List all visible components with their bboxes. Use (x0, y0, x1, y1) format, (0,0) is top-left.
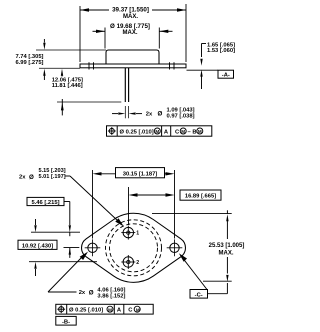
cap dome outline (106, 50, 159, 64)
pin 1 seal circle (123, 227, 133, 237)
svg-text:2x: 2x (19, 175, 26, 181)
feature control frame: position dia 0.25 [.010] M | A | C M (56, 304, 153, 314)
svg-text:MAX.: MAX. (123, 14, 138, 20)
left mounting hole tick 1 (88, 62, 90, 69)
ext line pin 1 center (left) (31, 231, 80, 233)
flange outline (bottom view) (82, 213, 186, 282)
svg-text:M: M (198, 129, 202, 134)
datum -B- flag (56, 316, 76, 325)
dimension 39.37 [1.550] MAX. overall width (80, 9, 109, 11)
svg-text:Ø: Ø (29, 174, 34, 181)
svg-text:M: M (181, 129, 185, 134)
dimension 2x dia 1.09/0.97 pin diameter (124, 106, 126, 118)
pin 1 crosshair vertical (127, 226, 129, 240)
pin 2 crosshair vertical (127, 255, 129, 269)
svg-text:A: A (117, 308, 122, 314)
svg-text:4.06 [.160]: 4.06 [.160] (97, 287, 125, 293)
svg-text:5.46 [.215]: 5.46 [.215] (31, 200, 59, 206)
svg-text:Ø 0.25 [.010]: Ø 0.25 [.010] (120, 129, 154, 135)
datum -A- flag on seating plane (187, 69, 219, 71)
dimension 1.65/1.53 flange thickness (202, 43, 207, 45)
ext line left hole center (92, 170, 94, 239)
right hole crosshair horizontal (167, 247, 183, 249)
can outer rim (hidden) dashed circle (106, 220, 162, 276)
ext line dome left (dia 19.68 dim) (104, 28, 106, 49)
ext line right hole center (174, 170, 176, 239)
right hole crosshair vertical (174, 239, 176, 256)
svg-text:M: M (108, 307, 112, 312)
can body (hidden) dashed circle (110, 224, 158, 272)
dimension dia 19.68 [.775] MAX. cap diameter (93, 30, 106, 32)
left hole crosshair vertical (92, 239, 94, 256)
pin 1 center circle (127, 231, 130, 234)
right mounting hole tick 2 (173, 62, 175, 69)
svg-text:39.37 [1.550]: 39.37 [1.550] (112, 6, 149, 13)
svg-text:2x: 2x (79, 290, 86, 296)
ext line flange top edge (right) (152, 212, 232, 214)
svg-text:30.15 [1.187]: 30.15 [1.187] (123, 171, 158, 177)
svg-text:2x: 2x (146, 112, 153, 118)
svg-text:A: A (164, 129, 169, 135)
svg-text:Ø 0.25 [.010]: Ø 0.25 [.010] (69, 308, 103, 314)
svg-text:10.92 [.430]: 10.92 [.430] (22, 243, 53, 249)
svg-text:0.97 [.038]: 0.97 [.038] (167, 114, 195, 120)
svg-text:M: M (136, 307, 140, 312)
svg-text:16.89 [.665]: 16.89 [.665] (185, 194, 216, 200)
svg-text:3.86 [.152]: 3.86 [.152] (97, 294, 125, 300)
left mounting hole (88, 243, 97, 252)
right mounting hole (170, 243, 179, 252)
svg-text:1.53 [.060]: 1.53 [.060] (207, 48, 235, 54)
feature control frame: position dia 0.25 [.010] M | A | C M - B M (107, 126, 212, 136)
dimension 5.46 [.215] pin 1 offset (basic, boxed) (27, 197, 64, 205)
ext line pin column (128, 187, 130, 225)
svg-text:Ø: Ø (158, 111, 163, 118)
ext line pin 2 center (left) (29, 261, 97, 263)
svg-text:M: M (155, 129, 159, 134)
svg-text:MAX.: MAX. (123, 30, 138, 36)
svg-text:Ø 19.68 [.775]: Ø 19.68 [.775] (110, 23, 150, 30)
pin 1 crosshair horizontal (121, 232, 135, 234)
svg-text:MAX.: MAX. (219, 250, 234, 256)
pin 2 seal circle (123, 257, 133, 267)
pin right edge (128, 68, 130, 102)
hole center line extended left (64, 247, 80, 249)
svg-text:6.99 [.275]: 6.99 [.275] (15, 60, 43, 66)
ext line flange bottom edge (right) (203, 280, 232, 282)
dimension 10.92 [.430] pin spacing (basic, boxed) (35, 219, 37, 225)
ext line flange right (39.37 dim) (185, 4, 187, 62)
ext line flange left (39.37 dim) (79, 6, 81, 62)
pin 2 center circle (127, 260, 130, 263)
datum -C- flag leading to right mounting hole (181, 255, 208, 289)
svg-text:Ø: Ø (89, 289, 94, 296)
svg-text:C: C (175, 129, 180, 135)
left mounting hole tick 2 (93, 62, 95, 69)
flange (side view) x80-186 y64-67.8 (80, 64, 186, 68)
svg-text:1: 1 (136, 231, 139, 237)
svg-text:C: C (128, 308, 133, 314)
dimension 12.06/11.81 pin length (61, 69, 63, 76)
ext line dome right (dia 19.68 dim) (158, 28, 160, 49)
svg-text:-A-: -A- (222, 73, 230, 79)
right mounting hole tick 1 (169, 62, 171, 69)
dimension 7.74/6.99 cap height (36, 49, 106, 51)
left hole crosshair horizontal (85, 247, 101, 249)
svg-text:-C-: -C- (195, 292, 203, 298)
svg-text:5.01 [.197]: 5.01 [.197] (39, 174, 66, 180)
svg-text:– B: – B (188, 129, 197, 135)
svg-text:11.81 [.446]: 11.81 [.446] (52, 83, 83, 89)
svg-text:7.74 [.305]: 7.74 [.305] (15, 54, 43, 60)
svg-text:25.53 [1.005]: 25.53 [1.005] (209, 243, 245, 249)
svg-text:2: 2 (136, 260, 139, 266)
pin left edge (124, 68, 126, 102)
pin 2 crosshair horizontal (121, 261, 135, 263)
svg-text:-B-: -B- (62, 319, 70, 325)
